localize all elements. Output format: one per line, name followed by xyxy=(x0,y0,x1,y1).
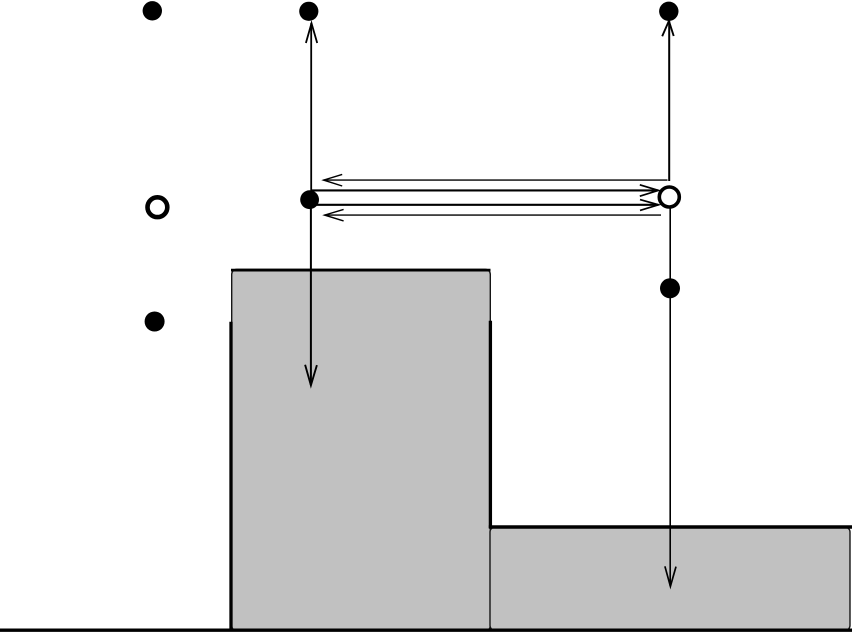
left deposition line xyxy=(310,199,312,385)
diffusion line 1 (thick) xyxy=(311,189,658,191)
hop-back arrowhead upper (left) xyxy=(324,174,343,186)
right deposition line xyxy=(669,209,671,587)
diffusion line 2 (thick) xyxy=(311,204,658,206)
left desorption arrowhead (up) xyxy=(306,23,317,43)
lower terrace slab (gray) xyxy=(490,527,850,631)
right desorption arrowhead (up) xyxy=(662,21,674,36)
diffusion arrowhead 2 (right) xyxy=(640,200,659,211)
adatom on lower terrace column xyxy=(660,278,680,298)
adatom top-middle xyxy=(299,2,318,21)
right desorption line xyxy=(668,21,670,181)
vacancy site right (open circle) xyxy=(659,187,679,207)
adatom top-left xyxy=(143,1,162,20)
vacancy site left (open circle) xyxy=(148,197,168,217)
hop-back arrowhead lower (left) xyxy=(325,209,344,221)
diffusion arrowhead 1 (right) xyxy=(640,185,659,196)
right deposition arrowhead (down) xyxy=(665,566,676,586)
adatom at left lattice site xyxy=(300,190,319,209)
hop-back line (upper thin) xyxy=(323,179,667,181)
left desorption line xyxy=(310,23,312,199)
hop-back line (lower thin) xyxy=(324,214,661,216)
substrate baseline xyxy=(0,629,852,632)
tall terrace slab (gray) xyxy=(232,269,491,631)
adatom top-right xyxy=(659,2,678,21)
left deposition arrowhead (down) xyxy=(305,365,317,386)
left step riser xyxy=(229,322,232,631)
lower terrace top edge xyxy=(489,525,852,528)
adatom lower-left xyxy=(145,312,165,332)
right step riser xyxy=(489,321,492,528)
tall terrace top edge xyxy=(231,269,491,272)
